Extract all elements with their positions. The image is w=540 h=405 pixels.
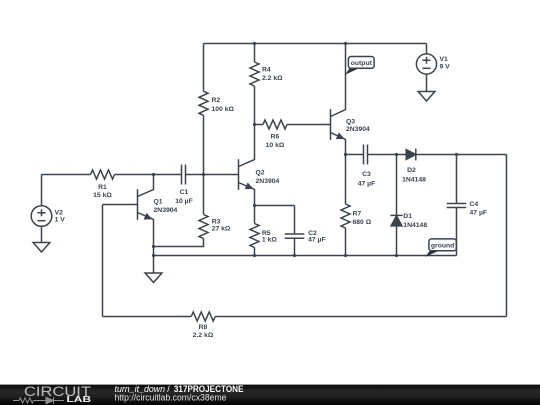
wire ground stub under Q1 <box>153 256 155 274</box>
label C3 <box>358 171 376 188</box>
svg-text:R4: R4 <box>262 67 271 74</box>
node Q1 emitter R3 <box>152 245 155 248</box>
label R4 <box>262 67 283 82</box>
wire C1 to Q2 base <box>186 174 239 176</box>
svg-text:2N3904: 2N3904 <box>154 207 178 214</box>
svg-text:output: output <box>351 60 373 67</box>
label C2 <box>308 230 326 244</box>
wire V1 top lead <box>426 44 428 55</box>
resistor R1 <box>91 170 115 179</box>
node Q3 emitter <box>344 153 347 156</box>
capacitor C4 <box>447 155 467 256</box>
svg-text:D2: D2 <box>407 167 416 174</box>
svg-text:C1: C1 <box>180 189 189 196</box>
svg-text:V1: V1 <box>440 56 449 63</box>
wire Q1 emitter to ground rail <box>153 247 155 256</box>
transistor Q3 <box>331 44 346 155</box>
wire main row left (V2 to R1) <box>42 174 91 176</box>
wire Q3 emitter row to C3 <box>346 154 364 156</box>
svg-text:2N3904: 2N3904 <box>346 126 370 133</box>
node top R4 <box>253 42 256 45</box>
wire right rail <box>506 155 508 317</box>
label C4 <box>470 201 488 217</box>
svg-text:10 kΩ: 10 kΩ <box>266 142 285 149</box>
node R2-R3 <box>202 173 205 176</box>
resistor R8 <box>191 312 215 321</box>
label V2 <box>55 210 66 224</box>
label R3 <box>212 219 231 233</box>
capacitor C1 <box>182 165 186 185</box>
svg-text:1 kΩ: 1 kΩ <box>262 237 277 244</box>
svg-text:1 V: 1 V <box>55 217 66 224</box>
svg-text:C3: C3 <box>362 171 371 178</box>
transistor Q2 <box>239 125 255 206</box>
node Q1 collector <box>152 173 155 176</box>
node D2 out <box>455 153 458 156</box>
wire V1 bottom lead <box>426 74 428 91</box>
svg-text:680 Ω: 680 Ω <box>353 219 372 226</box>
label R7 <box>353 210 372 226</box>
wire bottom rail left <box>103 316 192 318</box>
svg-text:2.2 kΩ: 2.2 kΩ <box>193 332 214 339</box>
label D2 <box>402 167 426 184</box>
label R2 <box>212 97 235 113</box>
ground under Q1 <box>145 273 162 283</box>
resistor R7 <box>341 155 350 256</box>
node R5 bottom <box>253 254 256 257</box>
svg-text:R6: R6 <box>271 134 280 141</box>
label Q3 <box>346 119 370 133</box>
svg-text:ground: ground <box>431 242 454 249</box>
node C3-D2-D1 <box>395 153 398 156</box>
label R1 <box>93 184 112 199</box>
svg-text:47 µF: 47 µF <box>470 210 488 217</box>
wire feedback left column <box>102 205 104 317</box>
svg-text:R7: R7 <box>353 210 362 217</box>
svg-text:R2: R2 <box>212 97 221 104</box>
wire C3 to D2 <box>368 154 407 156</box>
diode D1 <box>390 155 402 256</box>
svg-text:1N4148: 1N4148 <box>402 177 426 184</box>
resistor R2 <box>199 44 208 175</box>
capacitor C2 <box>285 206 305 256</box>
svg-text:9 V: 9 V <box>440 63 451 70</box>
wire R6 left <box>255 124 264 126</box>
node Q2 emitter <box>253 204 256 207</box>
resistor R3 <box>154 175 209 247</box>
svg-text:15 kΩ: 15 kΩ <box>93 192 112 199</box>
svg-text:10 µF: 10 µF <box>175 198 193 205</box>
svg-text:47 µF: 47 µF <box>358 181 376 188</box>
svg-text:C4: C4 <box>470 201 479 208</box>
svg-text:47 µF: 47 µF <box>308 237 326 244</box>
label output <box>351 60 373 67</box>
label R5 <box>262 230 277 244</box>
wire D2 to right rail <box>416 154 507 156</box>
svg-text:R3: R3 <box>212 219 221 226</box>
svg-text:R8: R8 <box>199 324 208 331</box>
wire bottom rail right <box>215 316 506 318</box>
node Q1 emitter ground <box>152 254 155 257</box>
label V1 <box>440 56 451 70</box>
output flag <box>345 57 374 75</box>
svg-text:D1: D1 <box>403 213 412 220</box>
ground under V2 <box>33 243 50 253</box>
label D1 <box>403 213 427 229</box>
svg-text:Q1: Q1 <box>154 199 163 206</box>
label R6 <box>266 134 285 150</box>
svg-text:R1: R1 <box>98 184 107 191</box>
capacitor C3 <box>364 145 368 165</box>
voltage source V1 <box>416 54 436 74</box>
label ground <box>431 242 454 249</box>
svg-text:2.2 kΩ: 2.2 kΩ <box>262 75 283 82</box>
label C1 <box>175 189 193 205</box>
wire top rail <box>204 43 427 45</box>
node top Q3 collector <box>344 42 347 45</box>
label R8 <box>193 324 214 339</box>
ground rail <box>154 255 457 257</box>
wire Q2 emitter node to C2 <box>255 205 295 207</box>
svg-text:Q3: Q3 <box>346 119 355 126</box>
ground flag <box>425 239 456 257</box>
node D1 bottom <box>395 254 398 257</box>
wire Q1 base <box>103 204 138 206</box>
node C2 bottom <box>293 254 296 257</box>
svg-text:http://circuitlab.com/cx38eme: http://circuitlab.com/cx38eme <box>115 392 227 402</box>
svg-text:1N4148: 1N4148 <box>403 222 427 229</box>
svg-text:100 kΩ: 100 kΩ <box>212 106 235 113</box>
node R4-R6-Q2 <box>253 123 256 126</box>
label Q2 <box>256 170 280 186</box>
transistor Q1 <box>138 175 154 247</box>
node R7 bottom <box>344 254 347 257</box>
label Q1 <box>154 199 178 214</box>
voltage source V2 <box>31 175 52 243</box>
ground under V1 <box>418 92 435 102</box>
resistor R6 <box>263 120 287 129</box>
wire R1 to C1 <box>115 174 182 176</box>
wire R6 to Q3 base <box>287 124 331 126</box>
resistor R4 <box>250 44 259 125</box>
logo doodle wire-resistor-diode <box>13 397 64 403</box>
resistor R5 <box>250 206 259 256</box>
svg-text:Q2: Q2 <box>256 170 265 177</box>
svg-text:LAB: LAB <box>67 394 92 404</box>
svg-text:2N3904: 2N3904 <box>256 178 280 185</box>
diode D2 <box>406 149 416 161</box>
svg-text:27 kΩ: 27 kΩ <box>212 226 231 233</box>
